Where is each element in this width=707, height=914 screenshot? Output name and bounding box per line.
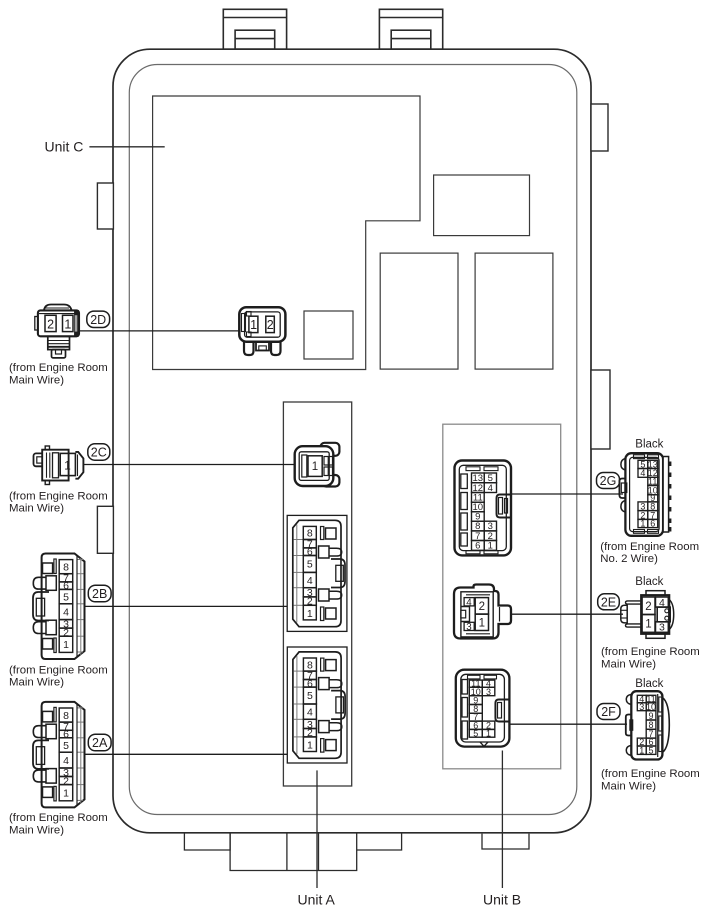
svg-text:Main Wire): Main Wire) <box>9 374 64 386</box>
svg-text:1: 1 <box>639 745 644 755</box>
left edge bump 1 <box>97 183 113 229</box>
svg-text:5: 5 <box>63 591 69 603</box>
svg-text:4: 4 <box>466 598 472 609</box>
svg-text:8: 8 <box>63 561 69 573</box>
svg-text:2: 2 <box>47 318 54 332</box>
svg-text:5: 5 <box>307 559 313 571</box>
svg-text:(from Engine Room: (from Engine Room <box>600 541 699 553</box>
connector 2G socket on block <box>455 461 512 556</box>
leader line Unit A <box>316 770 318 888</box>
top mounting tab 1 <box>223 9 286 49</box>
svg-text:3: 3 <box>659 622 665 634</box>
connector 2C socket on block <box>295 443 340 487</box>
leader line 2A <box>85 753 288 755</box>
svg-text:2F: 2F <box>601 705 616 719</box>
connector 2F socket on block <box>456 670 510 747</box>
leader line Unit B <box>501 751 503 889</box>
right edge bump 2 <box>591 370 610 449</box>
svg-text:(from Engine Room: (from Engine Room <box>9 362 108 374</box>
bubble 2B <box>88 585 111 602</box>
svg-text:Black: Black <box>635 576 663 588</box>
svg-text:Main Wire): Main Wire) <box>601 780 656 792</box>
svg-text:(from Engine Room: (from Engine Room <box>601 768 700 780</box>
svg-text:4: 4 <box>640 468 645 478</box>
connector 2C plug (from Engine Room Main Wire) <box>34 446 84 485</box>
svg-text:Unit A: Unit A <box>298 892 336 908</box>
svg-text:2B: 2B <box>92 587 107 601</box>
svg-text:2: 2 <box>479 601 485 613</box>
svg-text:4: 4 <box>659 597 665 609</box>
svg-text:1: 1 <box>63 639 69 651</box>
bottom tab shallow right <box>357 833 402 850</box>
svg-text:(from Engine Room: (from Engine Room <box>9 490 108 502</box>
svg-text:1: 1 <box>645 619 651 631</box>
bottom tab small <box>482 834 529 849</box>
svg-text:1: 1 <box>312 461 318 473</box>
bubble 2F <box>597 704 620 720</box>
relay block rect right <box>475 253 553 369</box>
svg-text:No. 2 Wire): No. 2 Wire) <box>600 553 658 565</box>
bottom tab shallow left <box>184 833 230 850</box>
leader line 2C <box>84 464 295 466</box>
connector 2E socket on block <box>454 585 511 639</box>
leader line 2F <box>510 723 627 725</box>
svg-text:6: 6 <box>475 541 480 552</box>
svg-text:5: 5 <box>473 728 478 738</box>
svg-text:Main Wire): Main Wire) <box>9 503 64 515</box>
svg-text:(from Engine Room: (from Engine Room <box>601 646 700 658</box>
svg-text:(from Engine Room: (from Engine Room <box>9 812 108 824</box>
Unit A area rect <box>283 402 351 786</box>
svg-text:2: 2 <box>645 601 651 613</box>
connector 2B plug (from Engine Room Main Wire) <box>33 554 85 660</box>
svg-text:5: 5 <box>648 745 653 755</box>
svg-text:3: 3 <box>486 687 491 697</box>
svg-text:1: 1 <box>307 608 313 620</box>
bubble 2A <box>88 734 111 751</box>
svg-text:6: 6 <box>63 580 69 592</box>
svg-text:Unit C: Unit C <box>45 139 84 155</box>
connector 2E plug (from Engine Room Main Wire) <box>621 591 674 639</box>
Unit C area outline <box>153 96 420 370</box>
svg-text:4: 4 <box>488 483 493 494</box>
connector 2G plug (from Engine Room No. 2 Wire) <box>619 453 671 536</box>
bubble 2D <box>87 311 110 327</box>
svg-text:2: 2 <box>307 596 313 608</box>
relay block rect middle <box>380 253 458 369</box>
bubble 2G <box>597 473 620 489</box>
svg-text:2C: 2C <box>91 446 107 460</box>
relay block rect top-right <box>434 175 530 236</box>
leader line 2D <box>80 330 241 332</box>
svg-text:1: 1 <box>64 318 71 332</box>
svg-text:2E: 2E <box>601 595 616 609</box>
svg-text:4: 4 <box>307 575 313 587</box>
svg-text:Main Wire): Main Wire) <box>9 824 64 836</box>
svg-text:6: 6 <box>650 519 655 529</box>
svg-text:3: 3 <box>639 702 644 712</box>
svg-text:2D: 2D <box>90 313 106 327</box>
connector 2B socket on block <box>287 515 347 631</box>
bubble 2C <box>88 444 110 460</box>
svg-text:2: 2 <box>63 627 69 639</box>
bottom tab deep group <box>230 833 357 871</box>
small relay rect beside 2D socket <box>304 311 353 359</box>
svg-text:Main Wire): Main Wire) <box>9 677 64 689</box>
svg-text:Main Wire): Main Wire) <box>601 658 656 670</box>
svg-text:(from Engine Room: (from Engine Room <box>9 664 108 676</box>
svg-text:1: 1 <box>488 541 493 552</box>
svg-text:Black: Black <box>635 438 663 450</box>
connector 2A plug (from Engine Room Main Wire) <box>33 702 85 808</box>
bubble 2E <box>598 594 620 610</box>
connector 2A socket on block <box>287 647 347 763</box>
svg-text:1: 1 <box>486 728 491 738</box>
svg-text:2: 2 <box>267 318 274 332</box>
connector 2F plug (from Engine Room Main Wire) <box>626 691 670 759</box>
connector 2D socket on block <box>239 307 285 355</box>
left edge bump 2 <box>97 506 113 553</box>
top mounting tab 2 <box>379 9 442 49</box>
fuse box inner outline <box>129 65 577 815</box>
svg-text:1: 1 <box>64 459 71 473</box>
svg-text:1: 1 <box>250 318 257 332</box>
fuse box outer body <box>113 49 591 833</box>
svg-text:1: 1 <box>479 617 485 629</box>
svg-text:2G: 2G <box>600 474 617 488</box>
svg-text:Unit B: Unit B <box>483 892 521 908</box>
svg-text:1: 1 <box>640 519 645 529</box>
svg-text:3: 3 <box>466 622 472 633</box>
Unit B area rect <box>443 424 561 769</box>
leader line 2B <box>85 605 288 607</box>
leader line 2G <box>512 493 624 495</box>
svg-text:Black: Black <box>635 678 663 690</box>
svg-text:6: 6 <box>307 546 313 558</box>
right edge bump 1 <box>591 104 608 151</box>
leader line 2E <box>511 613 623 615</box>
svg-text:2A: 2A <box>92 736 108 750</box>
leader line Unit C <box>89 146 164 148</box>
svg-text:4: 4 <box>63 607 69 619</box>
connector 2D plug (from Engine Room Main Wire) <box>35 305 79 358</box>
